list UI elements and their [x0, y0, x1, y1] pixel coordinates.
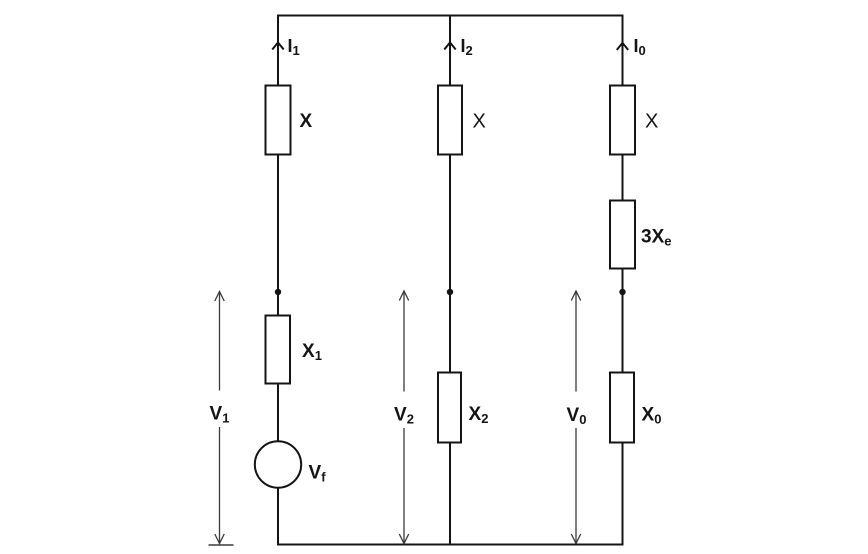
wire middle branch bottom [449, 443, 451, 546]
wire bottom bus [277, 544, 624, 546]
wire X to 3Xe [622, 155, 624, 201]
source Vf [255, 441, 301, 487]
resistor X (negative seq) [438, 86, 462, 155]
svg-text:X: X [645, 111, 658, 133]
wire 3Xe to X0 [622, 269, 624, 373]
arrow I2 [444, 43, 455, 50]
resistor X (zero seq) [610, 86, 635, 155]
wire right branch top [622, 15, 624, 86]
measure arrow V1 [215, 292, 224, 544]
node dot middle [447, 289, 453, 295]
arrow I0 [617, 43, 628, 50]
measure arrow V0 [571, 291, 580, 544]
resistor X (positive seq) [266, 86, 291, 155]
wire top bus [277, 15, 624, 17]
resistor X0 [610, 373, 634, 443]
wire middle branch top [449, 15, 451, 86]
wire middle branch middle [449, 155, 451, 373]
arrow I1 [272, 43, 283, 50]
wire right branch bottom [622, 443, 624, 546]
bar under V1 arrow [209, 544, 234, 546]
resistor X1 [266, 316, 291, 384]
wire left branch middle [277, 155, 279, 316]
resistor X2 [438, 373, 461, 443]
node dot left [275, 289, 281, 295]
measure arrow V2 [399, 291, 408, 544]
wire X1 to source [277, 384, 279, 442]
node dot right [619, 289, 625, 295]
wire source to bottom [277, 488, 279, 546]
wire left branch top [277, 15, 279, 86]
svg-text:X: X [473, 110, 486, 132]
svg-text:X: X [300, 111, 313, 132]
resistor 3Xe [610, 201, 635, 269]
